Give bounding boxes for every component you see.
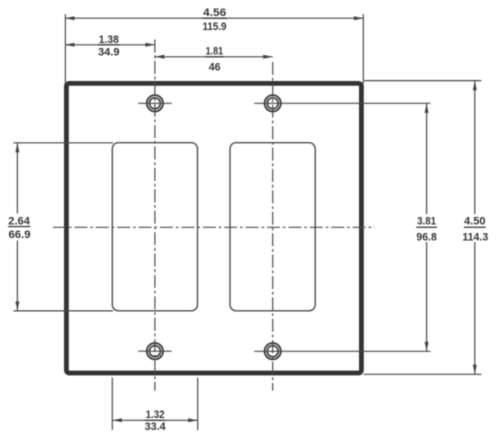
svg-text:33.4: 33.4 bbox=[145, 421, 167, 433]
svg-text:1.38: 1.38 bbox=[99, 34, 119, 46]
svg-text:4.56: 4.56 bbox=[203, 7, 226, 19]
svg-text:34.9: 34.9 bbox=[98, 47, 120, 59]
svg-text:4.50: 4.50 bbox=[464, 216, 485, 228]
svg-text:66.9: 66.9 bbox=[9, 229, 31, 241]
svg-text:3.81: 3.81 bbox=[417, 216, 436, 228]
svg-text:1.32: 1.32 bbox=[146, 409, 165, 421]
svg-text:1.81: 1.81 bbox=[206, 46, 224, 58]
svg-text:46: 46 bbox=[209, 62, 221, 74]
svg-text:2.64: 2.64 bbox=[8, 215, 30, 227]
svg-text:115.9: 115.9 bbox=[203, 21, 227, 33]
svg-text:114.3: 114.3 bbox=[462, 231, 488, 243]
svg-text:96.8: 96.8 bbox=[416, 231, 436, 243]
